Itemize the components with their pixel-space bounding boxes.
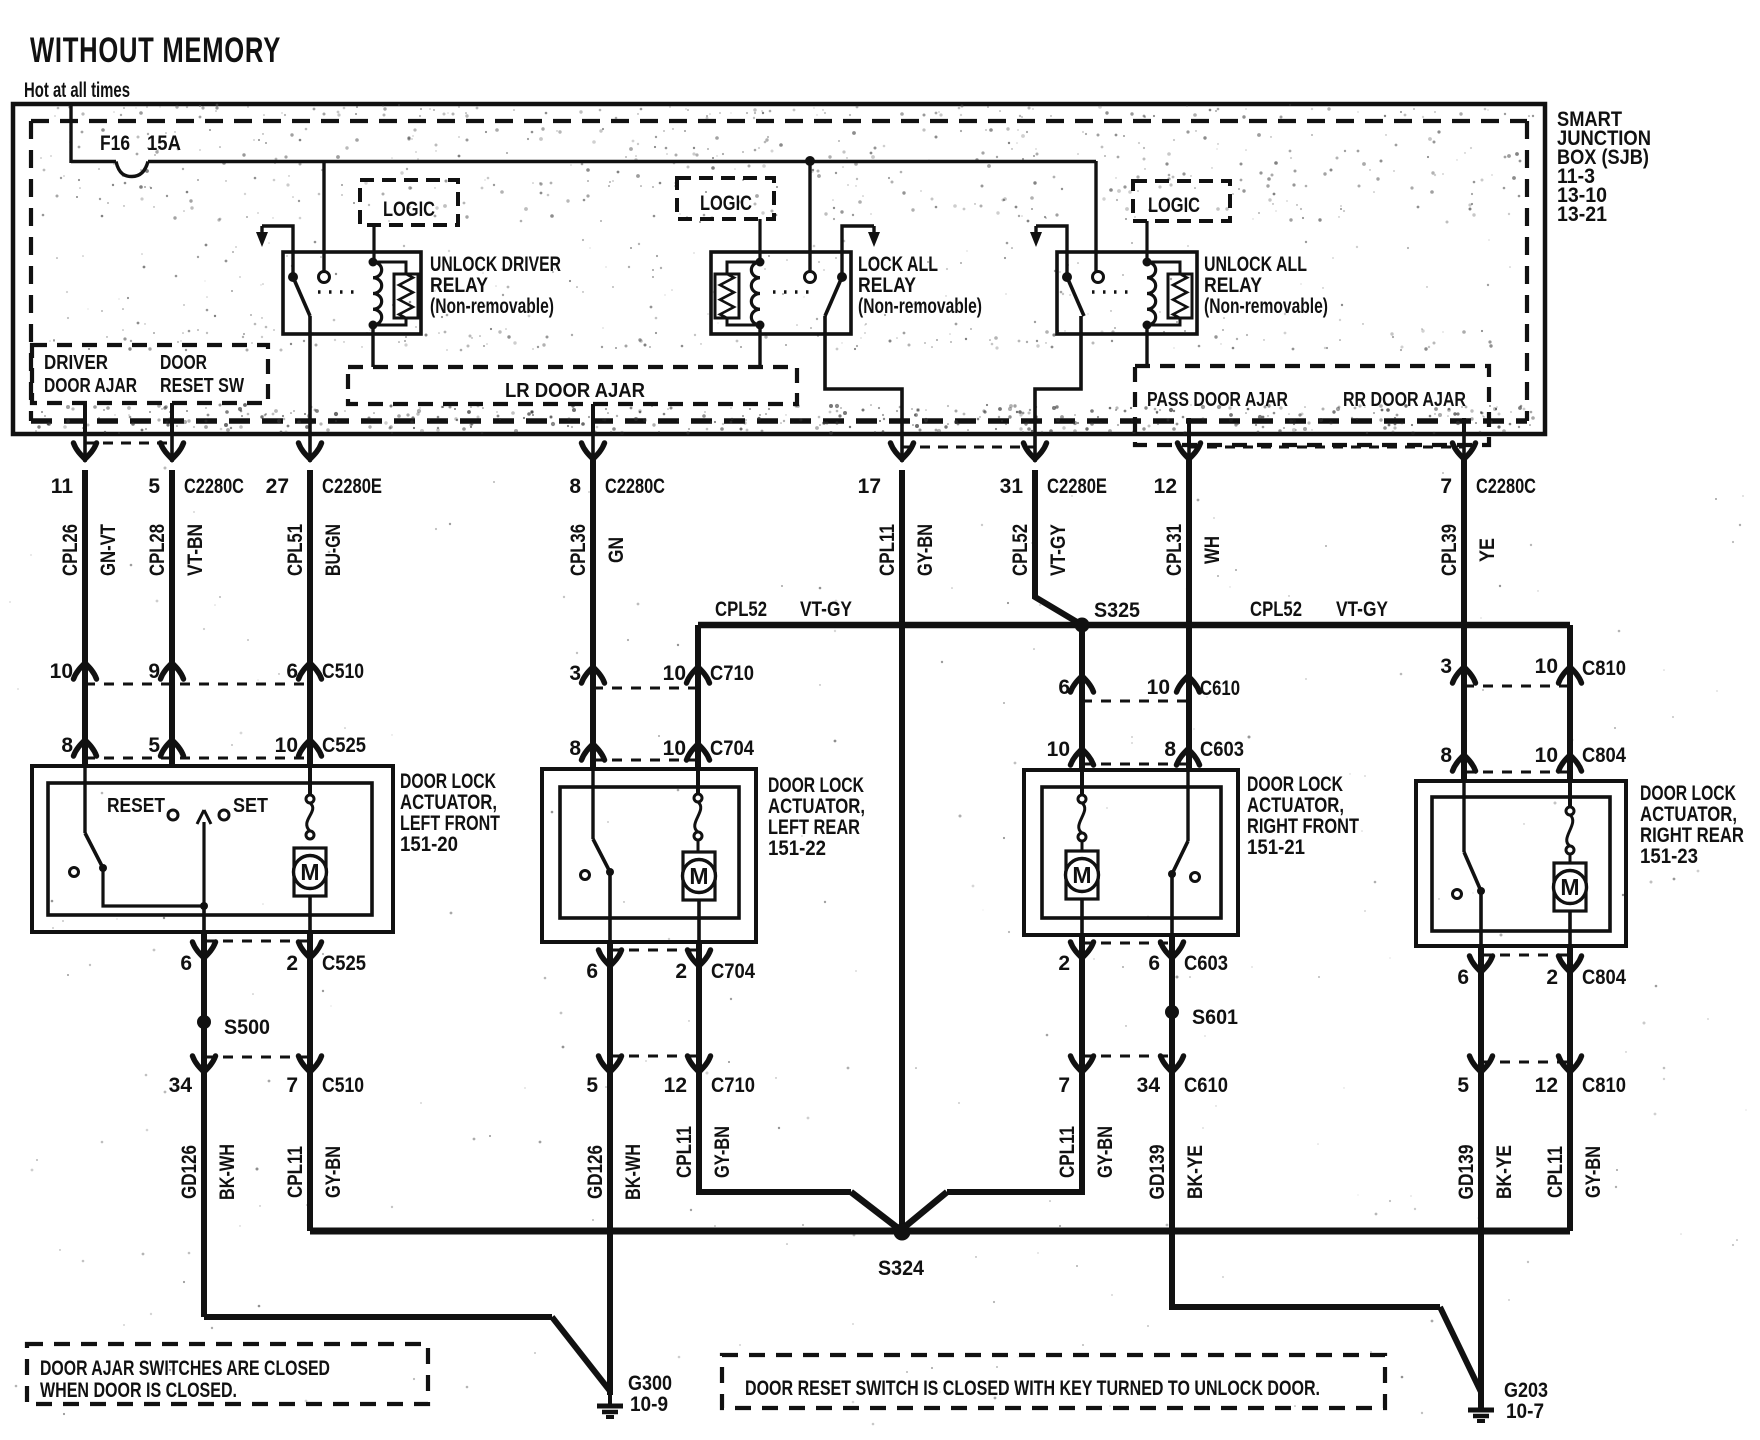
relay LOCK ALL RELAY box — [711, 252, 851, 334]
door reset selector arm — [197, 810, 211, 932]
svg-text:CPL39: CPL39 — [1438, 524, 1461, 576]
relay UNLOCK ALL RELAY label — [1204, 253, 1328, 318]
wire CPL11 GY-BN left rear — [673, 1066, 851, 1192]
svg-text:5: 5 — [148, 734, 160, 757]
svg-text:6: 6 — [1148, 952, 1160, 975]
svg-text:VT-GY: VT-GY — [1336, 598, 1388, 621]
motor M left rear — [683, 852, 716, 942]
relay UNLOCK ALL RELAY output arrow — [1030, 226, 1067, 274]
rr door ajar switch in actuator — [1453, 781, 1486, 946]
wire CPL36 GN — [567, 458, 628, 769]
SJB connector pin 12 — [1154, 434, 1201, 498]
svg-text:PASS DOOR AJAR: PASS DOOR AJAR — [1147, 389, 1288, 411]
LOGIC box 2 — [677, 178, 774, 219]
connector C510 upper row — [50, 660, 364, 684]
svg-text:C610: C610 — [1200, 677, 1240, 700]
svg-text:VT-GY: VT-GY — [1047, 524, 1070, 576]
junction node on feed line — [805, 156, 815, 166]
svg-text:7: 7 — [286, 1074, 298, 1097]
svg-text:10: 10 — [1535, 655, 1558, 678]
Smart Junction Box outer box — [13, 104, 1545, 434]
svg-text:S500: S500 — [224, 1016, 270, 1039]
svg-text:12: 12 — [1535, 1074, 1558, 1097]
svg-text:C2280E: C2280E — [1047, 475, 1107, 498]
svg-text:RELAY: RELAY — [1204, 274, 1262, 297]
wire pin2 left rear — [696, 942, 702, 1066]
svg-text:GY-BN: GY-BN — [322, 1146, 345, 1198]
svg-text:CPL36: CPL36 — [567, 524, 590, 576]
svg-text:CPL31: CPL31 — [1163, 524, 1186, 576]
svg-text:5: 5 — [1457, 1074, 1469, 1097]
svg-text:M: M — [1560, 874, 1579, 900]
svg-text:S325: S325 — [1094, 599, 1140, 622]
svg-text:BK-WH: BK-WH — [622, 1144, 645, 1200]
svg-text:12: 12 — [664, 1074, 687, 1097]
relay LOCK ALL RELAY switch arm — [825, 272, 847, 316]
connector C810 lower row — [1457, 1056, 1626, 1097]
motor M right rear — [1554, 863, 1587, 946]
svg-text:2: 2 — [286, 952, 298, 975]
svg-text:GY-BN: GY-BN — [1094, 1126, 1117, 1178]
door lock actuator RIGHT REAR box — [1416, 781, 1744, 946]
wire pin6 left rear — [607, 942, 613, 1066]
svg-text:DOOR AJAR: DOOR AJAR — [44, 375, 137, 397]
svg-text:GY-BN: GY-BN — [711, 1126, 734, 1178]
svg-text:3: 3 — [569, 662, 581, 685]
svg-text:8: 8 — [61, 734, 73, 757]
svg-text:17: 17 — [858, 475, 881, 498]
Smart Junction Box inner dashed outline — [31, 121, 1527, 421]
wire pass door ajar to pin 12 — [1187, 418, 1191, 445]
svg-text:RIGHT FRONT: RIGHT FRONT — [1247, 815, 1359, 838]
svg-text:CPL11: CPL11 — [876, 524, 899, 576]
switch box DRIVER DOOR AJAR / DOOR RESET SW — [32, 345, 268, 403]
svg-text:C804: C804 — [1582, 744, 1626, 767]
door lock actuator RIGHT FRONT box — [1024, 770, 1359, 935]
relay UNLOCK ALL RELAY switch arm — [1062, 272, 1084, 316]
splice S325 — [1075, 599, 1141, 633]
svg-text:LOGIC: LOGIC — [700, 192, 752, 215]
svg-text:C2280C: C2280C — [1476, 475, 1536, 498]
svg-text:RELAY: RELAY — [430, 274, 488, 297]
relay LOCK ALL RELAY resistor — [715, 262, 760, 325]
svg-text:DRIVER: DRIVER — [44, 352, 108, 374]
svg-text:10-9: 10-9 — [630, 1393, 668, 1416]
svg-text:UNLOCK DRIVER: UNLOCK DRIVER — [430, 253, 561, 276]
connector C804 lower row — [1457, 955, 1626, 989]
splice S601 — [1165, 1005, 1238, 1029]
wire diagonal to G203 — [1440, 1307, 1481, 1392]
svg-text:C525: C525 — [322, 734, 366, 757]
wire driver door ajar to pin 11 — [83, 403, 87, 434]
wire CPL51 BU-GN — [284, 470, 345, 766]
wire LR door ajar to pin 8 — [591, 404, 595, 434]
connector C610 upper row — [1058, 676, 1240, 701]
door lock actuator LEFT REAR box — [542, 769, 865, 942]
svg-text:10: 10 — [663, 737, 686, 760]
page scan noise — [9, 467, 1746, 1426]
svg-text:34: 34 — [169, 1074, 193, 1097]
wire diagonal to S324 left — [851, 1192, 903, 1232]
relay UNLOCK DRIVER RELAY label — [430, 253, 561, 318]
relay LOCK ALL RELAY label — [858, 253, 982, 318]
connector C525 lower row — [180, 941, 366, 975]
svg-text:GD139: GD139 — [1146, 1145, 1169, 1200]
svg-text:C2280C: C2280C — [605, 475, 665, 498]
wire relay3 coil to PASS DOOR AJAR — [1145, 325, 1148, 366]
svg-text:S601: S601 — [1192, 1006, 1238, 1029]
svg-text:ACTUATOR,: ACTUATOR, — [1247, 794, 1344, 817]
svg-text:8: 8 — [569, 737, 581, 760]
svg-text:12: 12 — [1154, 475, 1177, 498]
wire pin6 right rear — [1478, 946, 1484, 1066]
svg-text:RELAY: RELAY — [858, 274, 916, 297]
rf door ajar switch in actuator — [1168, 770, 1200, 935]
SJB connector pin 7 C2280C — [1440, 434, 1536, 498]
wire GD139 BK-YE to G203 — [1455, 1066, 1516, 1410]
svg-text:27: 27 — [266, 475, 289, 498]
svg-text:LOGIC: LOGIC — [383, 198, 435, 221]
label SMART JUNCTION BOX (SJB) — [1557, 108, 1651, 226]
svg-text:8: 8 — [1164, 738, 1176, 761]
svg-text:3: 3 — [1440, 655, 1452, 678]
relay UNLOCK ALL RELAY coil — [1143, 258, 1156, 330]
relay UNLOCK ALL RELAY resistor — [1147, 262, 1192, 325]
wire relay2 coil to LR DOOR AJAR — [758, 325, 761, 367]
svg-text:GY-BN: GY-BN — [1582, 1146, 1605, 1198]
svg-text:C510: C510 — [322, 660, 364, 683]
connector C603 lower row — [1058, 942, 1228, 975]
wire LOGIC3 to relay coil — [1145, 221, 1148, 262]
svg-text:6: 6 — [1058, 676, 1070, 699]
svg-text:13-21: 13-21 — [1557, 203, 1607, 226]
svg-text:31: 31 — [1000, 475, 1024, 498]
svg-text:2: 2 — [675, 960, 687, 983]
connector C704 row — [569, 737, 754, 760]
label CPL52 VT-GY left — [715, 598, 852, 621]
LOGIC box 1 — [360, 180, 458, 225]
relay UNLOCK DRIVER RELAY coil — [369, 258, 382, 330]
wire relay2 switch to pin 17 — [825, 316, 902, 434]
wire CPL28 VT-BN — [146, 470, 207, 766]
wire S324 bus left — [310, 1228, 902, 1235]
svg-text:ACTUATOR,: ACTUATOR, — [768, 795, 865, 818]
svg-text:2: 2 — [1546, 966, 1558, 989]
svg-text:C704: C704 — [710, 737, 754, 760]
wire bus to C710 — [695, 625, 701, 769]
wire relay3 switch to pin 31 — [1035, 316, 1081, 434]
svg-text:CPL28: CPL28 — [146, 524, 169, 576]
svg-text:C810: C810 — [1582, 657, 1626, 680]
wire feed to unlock-all relay coil contact — [1094, 161, 1097, 272]
connector dash pins 11-5 — [85, 442, 172, 445]
wire to G300 — [204, 1314, 552, 1320]
svg-text:6: 6 — [1457, 966, 1469, 989]
svg-text:C510: C510 — [322, 1074, 364, 1097]
SJB connector pin 8 C2280C — [569, 434, 665, 498]
connector C710 lower row — [586, 1056, 755, 1097]
note box door ajar switches — [27, 1344, 428, 1404]
svg-text:WH: WH — [1201, 536, 1224, 564]
SJB connector pin 5 C2280C — [148, 434, 244, 498]
svg-text:C710: C710 — [710, 662, 754, 685]
wire LOGIC1 to relay coil — [372, 225, 375, 262]
svg-text:BK-YE: BK-YE — [1493, 1145, 1516, 1199]
svg-text:SET: SET — [233, 795, 268, 817]
svg-text:YE: YE — [1476, 538, 1499, 562]
svg-text:151-23: 151-23 — [1640, 845, 1698, 868]
wire CPL52 VT-GY bus — [698, 622, 1570, 629]
wire CPL11 GY-BN to S324 — [876, 470, 937, 1231]
svg-text:DOOR AJAR SWITCHES ARE CLOSED: DOOR AJAR SWITCHES ARE CLOSED — [40, 1357, 330, 1380]
svg-text:LOGIC: LOGIC — [1148, 194, 1200, 217]
svg-text:ACTUATOR,: ACTUATOR, — [400, 791, 497, 814]
wire CPL39 YE — [1438, 458, 1499, 781]
svg-text:WHEN DOOR IS CLOSED.: WHEN DOOR IS CLOSED. — [40, 1379, 237, 1402]
svg-text:GY-BN: GY-BN — [914, 524, 937, 576]
connector C704 lower row — [586, 950, 755, 983]
svg-text:C2280C: C2280C — [184, 475, 244, 498]
wire CPL11 GY-BN left front — [284, 1066, 345, 1231]
svg-text:C525: C525 — [322, 952, 366, 975]
svg-text:(Non-removable): (Non-removable) — [430, 295, 554, 318]
svg-text:6: 6 — [586, 960, 598, 983]
motor link left front — [306, 766, 314, 839]
svg-text:DOOR LOCK: DOOR LOCK — [1247, 773, 1343, 796]
svg-text:CPL11: CPL11 — [284, 1146, 307, 1198]
svg-text:RESET SW: RESET SW — [160, 375, 244, 397]
svg-text:C704: C704 — [711, 960, 755, 983]
relay UNLOCK ALL RELAY control contact — [1093, 272, 1104, 283]
svg-text:C603: C603 — [1184, 952, 1228, 975]
switch RESET/SET contacts — [107, 795, 268, 820]
svg-text:8: 8 — [1440, 744, 1452, 767]
svg-text:CPL52: CPL52 — [1250, 598, 1302, 621]
relay UNLOCK ALL RELAY linkage — [1092, 290, 1134, 293]
wire pin2 right front — [1079, 935, 1085, 1066]
connector dash pins 17-31 — [902, 446, 1035, 449]
svg-text:LOCK ALL: LOCK ALL — [858, 253, 938, 276]
svg-text:ACTUATOR,: ACTUATOR, — [1640, 803, 1737, 826]
svg-text:RR DOOR AJAR: RR DOOR AJAR — [1343, 389, 1466, 411]
wire GD126 BK-WH left — [178, 1066, 239, 1317]
relay UNLOCK DRIVER RELAY box — [283, 252, 421, 334]
ground G300 — [597, 1372, 672, 1417]
fuse F16 15A — [71, 132, 1096, 177]
splice S324 — [878, 1224, 924, 1281]
svg-text:10-7: 10-7 — [1506, 1400, 1544, 1423]
wire from hot feed — [69, 104, 72, 163]
splice S500 — [197, 1015, 270, 1039]
wire S325 to C610 — [1079, 625, 1085, 770]
svg-text:7: 7 — [1058, 1074, 1070, 1097]
relay UNLOCK DRIVER RELAY linkage — [318, 290, 360, 293]
svg-text:10: 10 — [1047, 738, 1070, 761]
svg-text:6: 6 — [286, 660, 298, 683]
svg-text:10: 10 — [1147, 676, 1170, 699]
connector C510 lower row — [169, 1056, 364, 1097]
svg-text:2: 2 — [1058, 952, 1070, 975]
svg-text:10: 10 — [50, 660, 73, 683]
lr door ajar switch in actuator — [581, 769, 615, 942]
relay LOCK ALL RELAY output arrow — [842, 226, 880, 274]
motor link left rear — [694, 769, 702, 852]
svg-text:10: 10 — [275, 734, 298, 757]
note box door reset switch — [722, 1355, 1385, 1408]
relay UNLOCK DRIVER RELAY switch arm — [288, 272, 310, 316]
connector dash pins 12-7 — [1189, 446, 1464, 449]
svg-text:CPL11: CPL11 — [673, 1126, 696, 1178]
wire feed to unlock-driver relay coil contact — [322, 161, 325, 272]
svg-text:UNLOCK ALL: UNLOCK ALL — [1204, 253, 1307, 276]
svg-text:S324: S324 — [878, 1257, 924, 1280]
svg-text:LR DOOR AJAR: LR DOOR AJAR — [505, 380, 646, 402]
wire S324 bus right — [902, 1228, 1570, 1235]
svg-text:GN: GN — [605, 537, 628, 563]
wire pin6 right front — [1169, 935, 1175, 1066]
svg-text:7: 7 — [1440, 475, 1452, 498]
motor link right front — [1078, 770, 1086, 851]
connector C710 upper row — [569, 662, 754, 688]
SJB connector pin 17 — [858, 434, 914, 498]
svg-text:VT-GY: VT-GY — [800, 598, 852, 621]
wire relay1 switch to pin 27 — [308, 316, 312, 434]
svg-text:BU-GN: BU-GN — [322, 524, 345, 576]
svg-text:GD139: GD139 — [1455, 1145, 1478, 1200]
svg-text:M: M — [689, 863, 708, 889]
svg-text:CPL26: CPL26 — [59, 524, 82, 576]
relay LOCK ALL RELAY coil — [751, 258, 764, 330]
svg-text:9: 9 — [148, 660, 160, 683]
wire CPL31 WH — [1163, 458, 1224, 770]
relay UNLOCK DRIVER RELAY output arrow — [256, 226, 293, 274]
svg-text:C710: C710 — [711, 1074, 755, 1097]
connector C810 upper row — [1440, 655, 1626, 686]
svg-text:GN-VT: GN-VT — [97, 524, 120, 576]
svg-text:C810: C810 — [1582, 1074, 1626, 1097]
motor link right rear — [1566, 781, 1574, 864]
wire CPL11 GY-BN right front — [947, 1066, 1117, 1192]
wire GD139 BK-YE right front — [1146, 1066, 1440, 1307]
svg-text:C610: C610 — [1184, 1074, 1228, 1097]
SJB connector pin 27 C2280E — [266, 434, 382, 498]
svg-text:DOOR LOCK: DOOR LOCK — [768, 774, 864, 797]
wire diagonal to G300 — [552, 1317, 610, 1391]
wire GD126 BK-WH to G300 — [584, 1066, 645, 1395]
title — [30, 31, 281, 70]
svg-text:LEFT REAR: LEFT REAR — [768, 816, 860, 839]
SJB scan noise — [35, 104, 1535, 436]
svg-text:CPL52: CPL52 — [1009, 524, 1032, 576]
svg-text:CPL11: CPL11 — [1056, 1126, 1079, 1178]
svg-text:GD126: GD126 — [178, 1145, 201, 1199]
svg-text:151-21: 151-21 — [1247, 836, 1305, 859]
svg-text:5: 5 — [586, 1074, 598, 1097]
connector C610 lower row — [1058, 1056, 1228, 1097]
wire pin2 left front — [307, 932, 313, 1066]
label: Hot at all times — [24, 79, 130, 102]
svg-text:151-22: 151-22 — [768, 837, 826, 860]
svg-text:LEFT FRONT: LEFT FRONT — [400, 812, 500, 835]
relay UNLOCK DRIVER RELAY resistor — [373, 262, 418, 325]
svg-text:G203: G203 — [1504, 1379, 1548, 1402]
svg-text:(Non-removable): (Non-removable) — [1204, 295, 1328, 318]
wire door reset sw to pin 5 — [170, 403, 174, 434]
svg-text:M: M — [1072, 862, 1091, 888]
svg-text:BK-WH: BK-WH — [216, 1144, 239, 1200]
svg-text:WITHOUT MEMORY: WITHOUT MEMORY — [30, 31, 281, 70]
svg-text:15A: 15A — [147, 132, 181, 155]
svg-text:11: 11 — [51, 475, 74, 498]
svg-text:RIGHT REAR: RIGHT REAR — [1640, 824, 1744, 847]
svg-text:10: 10 — [663, 662, 686, 685]
wire feed to lock-all relay coil contact — [808, 161, 811, 272]
switch box PASS DOOR AJAR / RR DOOR AJAR — [1135, 366, 1489, 445]
label CPL52 VT-GY right — [1250, 598, 1388, 621]
wire pin2 right rear — [1567, 946, 1573, 1066]
svg-text:G300: G300 — [628, 1372, 672, 1395]
wire CPL26 GN-VT — [59, 470, 120, 766]
relay UNLOCK DRIVER RELAY control contact — [319, 272, 330, 283]
connector C603 row — [1047, 738, 1244, 765]
wire relay1 coil to LR DOOR AJAR — [371, 325, 374, 367]
switch box LR DOOR AJAR — [348, 367, 797, 404]
svg-text:BK-YE: BK-YE — [1184, 1145, 1207, 1199]
svg-text:10: 10 — [1535, 744, 1558, 767]
svg-text:RESET: RESET — [107, 795, 165, 817]
relay LOCK ALL RELAY control contact — [805, 272, 816, 283]
wire LOGIC2 to relay coil — [758, 219, 761, 262]
wire diagonal to S324 right — [901, 1192, 947, 1230]
svg-text:DOOR LOCK: DOOR LOCK — [400, 770, 496, 793]
SJB connector pin 11 — [51, 434, 97, 498]
driver door ajar switch in actuator — [70, 766, 209, 910]
svg-text:8: 8 — [569, 475, 581, 498]
svg-text:6: 6 — [180, 952, 192, 975]
wire CPL52 VT-GY from pin 31 — [1009, 470, 1082, 625]
svg-text:34: 34 — [1137, 1074, 1161, 1097]
svg-text:CPL51: CPL51 — [284, 524, 307, 576]
wire bus to C810 — [1567, 625, 1573, 781]
svg-text:CPL11: CPL11 — [1544, 1146, 1567, 1198]
ground G203 — [1468, 1379, 1548, 1423]
relay UNLOCK ALL RELAY box — [1057, 252, 1197, 334]
svg-text:(Non-removable): (Non-removable) — [858, 295, 982, 318]
svg-text:DOOR RESET SWITCH IS CLOSED WI: DOOR RESET SWITCH IS CLOSED WITH KEY TUR… — [745, 1377, 1320, 1400]
connector C804 row — [1440, 744, 1626, 772]
relay LOCK ALL RELAY linkage — [773, 290, 817, 293]
LOGIC box 3 — [1133, 181, 1230, 221]
svg-text:DOOR LOCK: DOOR LOCK — [1640, 782, 1736, 805]
wire CPL11 GY-BN right rear — [1544, 1066, 1605, 1231]
svg-text:151-20: 151-20 — [400, 833, 458, 856]
svg-text:M: M — [300, 859, 319, 885]
svg-text:Hot at all times: Hot at all times — [24, 79, 130, 102]
SJB connector pin 31 C2280E — [1000, 434, 1107, 498]
wire pin6 left front — [201, 932, 207, 1066]
svg-text:F16: F16 — [100, 132, 130, 155]
svg-text:C603: C603 — [1200, 738, 1244, 761]
svg-text:C2280E: C2280E — [322, 475, 382, 498]
door lock actuator LEFT FRONT box — [32, 766, 500, 932]
svg-text:CPL52: CPL52 — [715, 598, 767, 621]
svg-text:C804: C804 — [1582, 966, 1626, 989]
svg-text:GD126: GD126 — [584, 1145, 607, 1199]
motor M right front — [1066, 851, 1099, 935]
motor M left front — [294, 848, 327, 932]
svg-text:DOOR: DOOR — [160, 352, 207, 374]
connector C525 row — [61, 734, 366, 758]
